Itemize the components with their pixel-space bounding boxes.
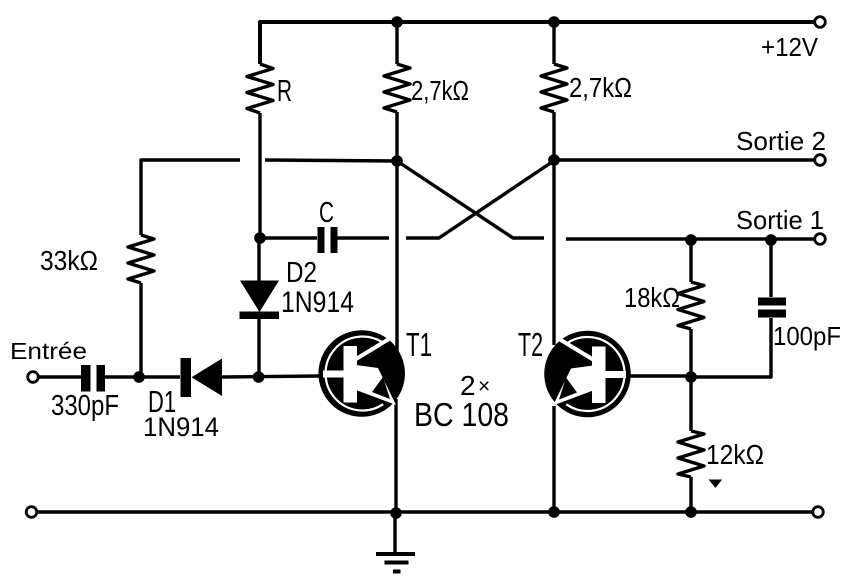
svg-text:×: ×	[478, 375, 490, 398]
svg-text:C: C	[319, 197, 334, 229]
svg-text:33kΩ: 33kΩ	[40, 245, 98, 276]
svg-text:100pF: 100pF	[773, 321, 841, 351]
svg-text:330pF: 330pF	[51, 390, 119, 422]
svg-text:T1: T1	[406, 326, 432, 363]
svg-text:2,7kΩ: 2,7kΩ	[569, 72, 632, 103]
svg-text:12kΩ: 12kΩ	[706, 439, 764, 470]
svg-text:BC 108: BC 108	[414, 396, 509, 433]
svg-text:T2: T2	[518, 326, 543, 363]
svg-text:1N914: 1N914	[143, 412, 219, 442]
svg-text:R: R	[277, 73, 292, 108]
svg-text:1N914: 1N914	[281, 286, 354, 319]
svg-text:+12V: +12V	[761, 32, 819, 62]
svg-text:2,7kΩ: 2,7kΩ	[411, 75, 469, 106]
svg-text:Entrée: Entrée	[10, 338, 87, 364]
svg-text:Sortie 2: Sortie 2	[736, 126, 826, 156]
svg-text:18kΩ: 18kΩ	[624, 282, 680, 313]
svg-text:D2: D2	[286, 257, 317, 289]
svg-text:Sortie 1: Sortie 1	[736, 205, 824, 235]
